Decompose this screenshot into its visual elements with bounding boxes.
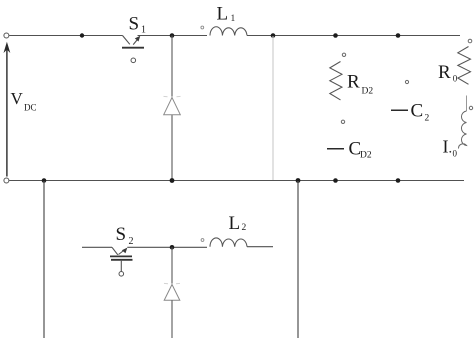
svg-text:D2: D2 — [362, 86, 374, 96]
svg-text:C: C — [411, 101, 424, 122]
svg-text:V: V — [11, 89, 24, 108]
svg-text:DC: DC — [24, 103, 37, 113]
svg-text:2: 2 — [242, 223, 247, 233]
svg-text:S: S — [116, 224, 127, 245]
svg-text:S: S — [129, 14, 140, 35]
svg-text:D2: D2 — [360, 150, 372, 160]
svg-text:2: 2 — [425, 114, 430, 124]
svg-text:R: R — [347, 72, 360, 93]
svg-text:L: L — [229, 213, 241, 234]
svg-text:2: 2 — [129, 236, 134, 247]
svg-text:0: 0 — [453, 74, 458, 84]
svg-text:1: 1 — [231, 14, 236, 24]
svg-text:1: 1 — [141, 25, 146, 36]
svg-text:R: R — [438, 62, 451, 83]
svg-text:I: I — [443, 137, 449, 157]
svg-text:0: 0 — [453, 149, 458, 159]
svg-text:L: L — [217, 4, 229, 25]
